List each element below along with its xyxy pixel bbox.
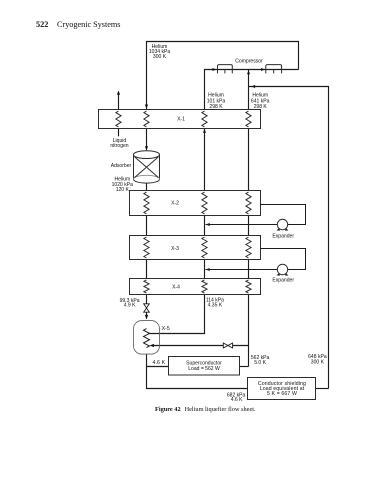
- wire HP helium adsorber to X-2: [146, 183, 148, 190]
- wire shield supply X-4 to junction: [248, 295, 250, 367]
- valve JT: [144, 304, 150, 312]
- wire superconductor outlet: [240, 366, 249, 368]
- wire HP helium X-1 to adsorber: [146, 129, 148, 151]
- svg-text:4.9 K: 4.9 K: [124, 303, 136, 309]
- svg-text:X-2: X-2: [171, 201, 179, 207]
- wire 562 kPa return through valve: [153, 345, 249, 347]
- arrow up LN2 vent: [117, 91, 120, 95]
- expander E1: [206, 205, 306, 230]
- heat exchanger X-1: [99, 110, 261, 129]
- wire LN2 vent: [118, 92, 120, 109]
- conductor shielding box: [248, 378, 316, 400]
- svg-text:5.0 K: 5.0 K: [254, 360, 266, 366]
- svg-text:300 K: 300 K: [153, 54, 167, 60]
- wire LP cold return from X-5: [148, 295, 204, 334]
- wire vessel bottom outlet: [147, 354, 248, 388]
- wire JT branch upper: [146, 295, 148, 304]
- arrow left expander 2 outlet: [206, 268, 210, 271]
- arrow down into X-1 HP: [145, 105, 148, 109]
- compressor C1: [218, 65, 233, 74]
- wire verticals X-2 to X-3: [147, 216, 249, 236]
- adsorber: [134, 151, 160, 183]
- wire conductor shielding outlet: [316, 388, 329, 390]
- wire LP return X-2 to X-1: [204, 129, 206, 191]
- arrow up LP below X-1: [203, 129, 206, 133]
- arrow right before compressor 2: [261, 68, 265, 71]
- svg-text:Cryogenic Systems: Cryogenic Systems: [57, 20, 120, 29]
- arrow left 562 kPa into vessel coil: [150, 344, 154, 347]
- svg-text:X-4: X-4: [172, 285, 180, 291]
- svg-text:4.6 K: 4.6 K: [231, 397, 243, 403]
- svg-text:298 K: 298 K: [209, 104, 223, 110]
- svg-text:298 K: 298 K: [254, 104, 268, 110]
- svg-text:5 K = 667 W: 5 K = 667 W: [267, 391, 297, 397]
- compressor C2: [266, 65, 282, 74]
- superconductor load box: [169, 357, 240, 376]
- arrow right before compressor 1: [212, 68, 216, 71]
- wire LN2 feed stub: [118, 129, 120, 137]
- svg-text:X-1: X-1: [177, 117, 185, 123]
- svg-text:120 K: 120 K: [116, 187, 130, 193]
- arrow down into X-5 bath: [145, 315, 148, 319]
- svg-text:522: 522: [36, 20, 48, 29]
- wire JT branch into vessel: [146, 312, 148, 319]
- vessel X-5 dewar: [134, 321, 160, 355]
- wire compressor discharge top loop: [147, 42, 299, 110]
- wire verticals X-3 to X-4: [147, 260, 249, 279]
- arrow left expander 1 outlet: [206, 223, 210, 226]
- coil in X-5: [144, 329, 150, 348]
- heat exchanger X-4: [130, 279, 261, 295]
- wire compressor suction line: [205, 70, 299, 110]
- valve on 562 kPa line: [223, 343, 232, 348]
- svg-text:300 K: 300 K: [311, 359, 325, 365]
- svg-text:X-5: X-5: [162, 326, 170, 332]
- arrow up interstage junction: [247, 70, 250, 74]
- heat exchanger X-3: [130, 236, 261, 260]
- svg-text:4.6 K: 4.6 K: [152, 360, 165, 366]
- wire superconductor inlet: [147, 366, 169, 368]
- wire interstage riser 641 kPa: [248, 70, 250, 110]
- expander E2: [206, 249, 306, 275]
- arrow left shield return: [251, 85, 255, 88]
- wire shield return 648 kPa: [249, 87, 329, 389]
- svg-text:X-3: X-3: [171, 246, 179, 252]
- arrow down into adsorber: [145, 146, 148, 150]
- svg-text:Compressor: Compressor: [235, 58, 263, 64]
- svg-text:Load = 562 W: Load = 562 W: [188, 366, 220, 372]
- heat exchanger X-2: [130, 191, 261, 216]
- svg-text:Figure 42Helium liquefier flow: Figure 42Helium liquefier flow sheet.: [155, 406, 256, 413]
- svg-text:Adsorber: Adsorber: [111, 163, 132, 169]
- wire shield stream X-2 to X-1: [248, 129, 250, 191]
- svg-text:Expander: Expander: [272, 233, 294, 239]
- svg-text:nitrogen: nitrogen: [110, 143, 128, 149]
- svg-text:Expander: Expander: [272, 277, 294, 283]
- svg-text:4.35 K: 4.35 K: [208, 303, 223, 309]
